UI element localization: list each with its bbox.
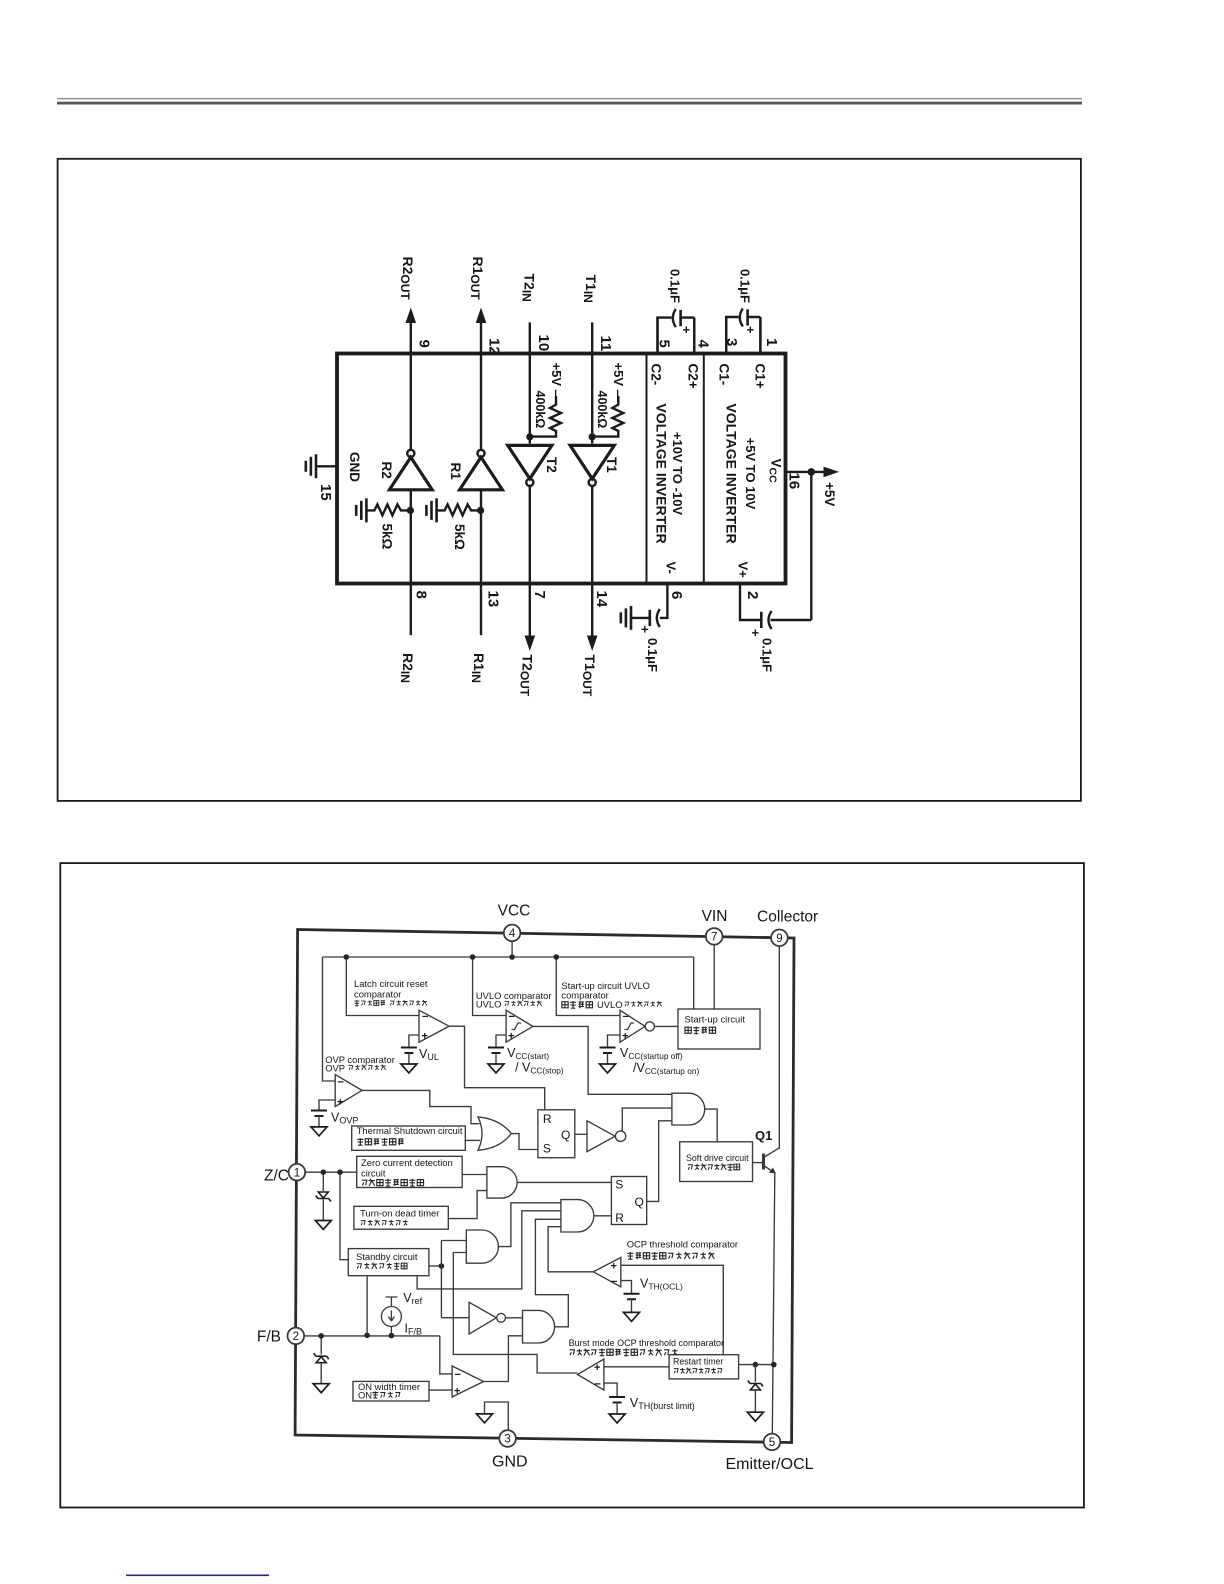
svg-text:VTH(burst limit): VTH(burst limit) — [630, 1396, 695, 1411]
svg-text:T2OUT: T2OUT — [518, 655, 536, 697]
ON width comparator output up to burst AND — [484, 1336, 523, 1382]
svg-text:0.1μF: 0.1μF — [645, 638, 660, 672]
pseudo japanese: UVLO comparator caption — [505, 1001, 542, 1007]
svg-text:+: + — [679, 326, 694, 334]
svg-text:OCP threshold comparator: OCP threshold comparator — [627, 1239, 738, 1250]
GND pin ground symbol — [485, 1402, 509, 1431]
svg-text:S: S — [615, 1178, 623, 1192]
svg-text:VTH(OCL): VTH(OCL) — [640, 1277, 683, 1292]
Z/C to standby circuit — [340, 1172, 348, 1260]
junction dot bus latch comparator — [344, 954, 350, 960]
svg-text:/ VCC(stop): / VCC(stop) — [515, 1061, 564, 1076]
figure 2 outer frame — [60, 863, 1084, 1507]
OR output to latch2 R — [594, 1215, 612, 1217]
svg-text:Q1: Q1 — [755, 1128, 772, 1143]
svg-text:VOLTAGE INVERTER: VOLTAGE INVERTER — [724, 403, 740, 543]
UVLO battery VCCstart — [496, 1035, 506, 1047]
svg-text:VCC(start): VCC(start) — [507, 1046, 549, 1061]
wire V+ cap to +5V rail — [810, 472, 812, 620]
svg-text:Turn-on dead timer: Turn-on dead timer — [360, 1208, 439, 1219]
turn-on dead timer block — [354, 1206, 448, 1229]
pseudo japanese: latch comparator caption — [354, 1000, 427, 1006]
svg-text:5kΩ: 5kΩ — [452, 524, 467, 550]
junction dot R2/5k — [407, 507, 414, 514]
resistor 400k T1 (vertical) — [592, 396, 623, 437]
svg-text:5kΩ: 5kΩ — [380, 524, 395, 550]
inverter2 bubble — [497, 1313, 506, 1322]
svg-text:9: 9 — [416, 340, 433, 348]
burst AND gate — [523, 1310, 555, 1343]
svg-text:+5V —: +5V — — [549, 363, 564, 403]
svg-text:0.1μF: 0.1μF — [668, 269, 683, 303]
latch reset comparator triangle — [419, 1010, 449, 1042]
ground at 5k R1 — [426, 498, 436, 522]
internal divider line right (doubler section) — [703, 355, 705, 582]
svg-text:T1: T1 — [604, 457, 619, 473]
standby AND output to OR-a — [498, 1203, 561, 1247]
standby second bottom lead to OR-b — [417, 1211, 561, 1289]
OVP comparator triangle — [335, 1075, 362, 1107]
svg-text:1: 1 — [294, 1167, 300, 1179]
svg-text:VCC: VCC — [498, 903, 531, 920]
startup comparator output bubble — [645, 1022, 654, 1031]
wire pin 14 T1OUT — [591, 486, 593, 637]
restart timer output to emitter line — [739, 1364, 774, 1366]
pseudo japanese: standby caption — [357, 1263, 407, 1270]
svg-text:1: 1 — [763, 338, 780, 346]
junction dot restart emitter — [771, 1362, 777, 1368]
arrow R1OUT — [476, 309, 485, 323]
AND to latch2 S — [517, 1181, 611, 1183]
transmitter T2 triangle — [508, 445, 552, 478]
svg-text:16: 16 — [786, 473, 803, 490]
Q1 base wire — [753, 1162, 763, 1164]
capacitor C5 plates (V- to GND) — [648, 610, 651, 626]
junction dot T2/400k — [526, 433, 533, 440]
wire pin7 VIN down — [713, 945, 715, 1010]
F/B pin wire — [302, 1335, 440, 1337]
svg-text:VCC(startup off): VCC(startup off) — [620, 1046, 683, 1061]
svg-text:9: 9 — [776, 933, 782, 945]
svg-text:Restart timer: Restart timer — [673, 1357, 723, 1367]
RS latch 2 — [611, 1177, 646, 1225]
OR to latch S — [511, 1134, 538, 1150]
start-up circuit block — [678, 1009, 760, 1049]
pin circle 4 — [504, 925, 521, 942]
svg-text:GND: GND — [347, 452, 362, 482]
OR gate thermal — [478, 1117, 511, 1150]
junction dot Z/C zener — [321, 1169, 327, 1175]
capacitor C1 loop pins 1-3 — [726, 317, 738, 355]
arrow T1OUT — [588, 636, 597, 650]
inverter bubble — [615, 1131, 625, 1141]
pseudo japanese: zero current caption — [362, 1179, 424, 1186]
wire pin 3 stub — [725, 317, 727, 355]
ground symbol pin 15 — [306, 454, 316, 478]
svg-text:Soft drive circuit: Soft drive circuit — [686, 1153, 749, 1163]
svg-text:0.1μF: 0.1μF — [738, 269, 753, 303]
svg-text:OVP: OVP — [325, 1063, 345, 1074]
svg-text:400kΩ: 400kΩ — [533, 391, 547, 429]
UVLO output down to big AND — [533, 1026, 672, 1094]
UVLO comparator triangle — [506, 1010, 533, 1042]
burst mode comparator triangle (points left) — [578, 1359, 604, 1390]
pseudo japanese: startup UVLO caption — [562, 1001, 593, 1008]
svg-text:ON: ON — [358, 1390, 372, 1401]
startup hysteresis glyph — [625, 1023, 635, 1030]
standby circuit block — [348, 1249, 429, 1276]
svg-text:Thermal Shutdown circuit: Thermal Shutdown circuit — [357, 1125, 463, 1136]
svg-text:R2: R2 — [379, 462, 394, 479]
svg-text:Start-up circuit: Start-up circuit — [685, 1014, 746, 1025]
svg-text:12: 12 — [486, 338, 503, 355]
svg-text:VUL: VUL — [419, 1047, 439, 1062]
OCP output to OR-d — [548, 1227, 593, 1272]
wire pin 9 R2OUT — [410, 323, 412, 450]
svg-text:−: − — [623, 1011, 629, 1023]
svg-text:+: + — [454, 1386, 460, 1398]
wire pin 1 stub — [759, 317, 761, 355]
svg-text:2: 2 — [293, 1331, 299, 1343]
latch comparator plus lead and battery VUL — [409, 1035, 419, 1047]
OVP battery VOVP — [319, 1100, 335, 1110]
resistor 5k R1 zigzag — [437, 504, 481, 515]
svg-text:S: S — [543, 1142, 551, 1156]
junction dot T1/400k — [589, 433, 596, 440]
burst plus wire to restart timer — [604, 1366, 669, 1368]
svg-text:V+: V+ — [736, 562, 751, 579]
svg-text:+: + — [748, 629, 763, 637]
zero current AND gate — [487, 1167, 517, 1198]
resistor 5k R2 zigzag — [366, 504, 410, 515]
svg-text:4: 4 — [509, 928, 516, 940]
ground symbol at C5 — [621, 606, 631, 630]
UVLO hysteresis glyph — [512, 1023, 522, 1030]
Q1 emitter arrow — [769, 1168, 775, 1173]
svg-text:14: 14 — [593, 591, 610, 608]
standby AND gate — [466, 1230, 498, 1263]
svg-text:+5V —: +5V — — [611, 363, 626, 403]
thermal shutdown block — [352, 1126, 466, 1150]
zener at emitter — [754, 1365, 756, 1382]
latch2 Q up to big AND — [647, 1121, 672, 1202]
latch1 Q to inverter — [575, 1133, 587, 1135]
blue footer line — [126, 1575, 269, 1577]
ON width timer output to comparator plus — [429, 1389, 452, 1391]
zero current to AND — [462, 1174, 487, 1176]
OVP output to OR gate — [362, 1090, 480, 1123]
junction dot bus UVLO — [470, 954, 476, 960]
wire pin 5 stub — [656, 318, 658, 355]
big AND output to soft drive — [705, 1109, 718, 1142]
svg-text:+: + — [594, 1362, 600, 1374]
ON width comparator triangle — [452, 1366, 484, 1397]
svg-text:GND: GND — [492, 1454, 528, 1471]
zener at F/B — [320, 1336, 322, 1355]
VCC bus wire — [323, 957, 694, 1081]
svg-text:Emitter/OCL: Emitter/OCL — [726, 1456, 814, 1473]
receiver R2 triangle — [389, 457, 432, 490]
wire pin 8 R2IN — [410, 490, 412, 635]
wire pin9 collector down — [778, 946, 781, 1148]
svg-text:−: − — [595, 1379, 601, 1391]
svg-text:+: + — [638, 626, 653, 634]
pseudo japanese: startup box caption — [685, 1027, 716, 1034]
Vref current source — [386, 1297, 398, 1307]
svg-text:+5V: +5V — [822, 482, 837, 506]
internal divider line left (inverter section) — [646, 355, 648, 582]
svg-text:Collector: Collector — [757, 909, 818, 926]
zener at Z/C — [322, 1172, 324, 1191]
svg-text:5: 5 — [656, 340, 673, 348]
inverter triangle — [587, 1121, 615, 1152]
svg-text:C1-: C1- — [717, 364, 732, 386]
wire pin 12 R1OUT — [480, 323, 482, 450]
svg-text:7: 7 — [531, 591, 548, 599]
svg-text:R1OUT: R1OUT — [468, 257, 486, 301]
svg-text:R1: R1 — [448, 463, 463, 481]
capacitor C2 loop pins 5-4 — [658, 318, 672, 355]
pseudo japanese: restart timer caption — [674, 1368, 722, 1374]
svg-text:Vref: Vref — [403, 1291, 422, 1306]
wire pin 13 R1IN — [480, 490, 482, 635]
svg-text:R2IN: R2IN — [398, 653, 416, 683]
OCP minus battery VTHOCL — [621, 1281, 632, 1293]
svg-text:+10V TO -10V: +10V TO -10V — [670, 432, 685, 516]
junction dot Z/C standby — [337, 1169, 343, 1175]
svg-text:V-: V- — [664, 562, 679, 574]
resistor 400k T2 (vertical) — [530, 396, 561, 437]
standby line up to AND and down to inverter2 — [441, 1241, 469, 1318]
F/B bus corner down to ON width comparator minus — [440, 1336, 452, 1374]
svg-text:Zero current detection: Zero current detection — [361, 1157, 453, 1168]
soft drive circuit block — [680, 1142, 753, 1182]
svg-text:VCC: VCC — [767, 459, 784, 484]
transmitter T1 triangle — [570, 445, 614, 478]
svg-text:R1IN: R1IN — [469, 653, 487, 683]
svg-text:Latch circuit reset: Latch circuit reset — [354, 978, 428, 989]
svg-text:+5V TO 10V: +5V TO 10V — [743, 438, 758, 510]
Q1 collector — [764, 1148, 779, 1157]
pseudo japanese: soft drive caption — [688, 1164, 740, 1171]
wire pin 15 GND — [316, 465, 337, 467]
pseudo japanese: OVP comparator caption — [349, 1065, 386, 1071]
svg-text:Z/C: Z/C — [264, 1168, 289, 1185]
svg-text:7: 7 — [711, 932, 717, 944]
figure 1 outer frame — [58, 159, 1081, 801]
svg-text:−: − — [611, 1276, 617, 1288]
OCP threshold comparator triangle (points left) — [593, 1258, 621, 1287]
svg-text:11: 11 — [597, 336, 614, 352]
junction dot R1/5k — [477, 507, 484, 514]
junction dot standby — [439, 1263, 445, 1269]
svg-text:Q: Q — [635, 1195, 644, 1209]
svg-text:R: R — [543, 1112, 552, 1126]
inverter2 triangle — [469, 1302, 496, 1334]
burst comparator output to AND bottom — [453, 1253, 577, 1374]
zero current detection block — [357, 1156, 463, 1187]
arrow +5V — [824, 467, 838, 476]
pin circle 9 — [771, 930, 788, 947]
svg-text:circuit: circuit — [361, 1168, 386, 1179]
pin circle 5 — [764, 1434, 781, 1451]
svg-text:Q: Q — [561, 1128, 570, 1142]
svg-text:T2IN: T2IN — [520, 274, 538, 302]
inverter2 to burst AND — [506, 1317, 523, 1319]
svg-text:C1+: C1+ — [753, 364, 768, 389]
wire pin 10 T2IN — [529, 322, 531, 443]
standby output wire — [429, 1265, 442, 1267]
svg-text:3: 3 — [723, 338, 740, 346]
thermal output to OR — [465, 1139, 480, 1141]
wire pin 2 V+ — [740, 584, 761, 621]
svg-text:+: + — [611, 1261, 617, 1273]
svg-text:400kΩ: 400kΩ — [595, 391, 609, 429]
svg-text:+: + — [422, 1031, 428, 1043]
RS latch 1 — [538, 1110, 575, 1158]
svg-text:−: − — [455, 1369, 461, 1381]
startup UVLO battery VCCstartup — [608, 1035, 621, 1047]
svg-text:VOLTAGE INVERTER: VOLTAGE INVERTER — [654, 403, 670, 543]
capacitor C4 plates (V+ to VCC) — [760, 612, 763, 628]
pin circle 2 — [288, 1328, 305, 1345]
svg-text:0.1μF: 0.1μF — [760, 638, 775, 672]
pseudo japanese: OCP threshold caption — [627, 1252, 714, 1259]
arrow R2OUT — [406, 309, 415, 323]
startup UVLO comparator triangle — [620, 1010, 645, 1042]
ground at 5k R2 — [356, 498, 366, 522]
Q1 base bar — [762, 1154, 765, 1170]
pin circle 7 — [706, 928, 723, 945]
svg-text:+: + — [743, 326, 758, 334]
receiver R1 triangle — [460, 457, 503, 490]
svg-text:Burst mode OCP threshold compa: Burst mode OCP threshold comparator — [569, 1338, 724, 1348]
Q1 emitter — [764, 1166, 775, 1173]
block diagram outer border — [295, 930, 794, 1443]
svg-text:−: − — [509, 1011, 515, 1023]
svg-text:C2+: C2+ — [686, 364, 701, 389]
svg-text:2: 2 — [744, 591, 761, 599]
svg-text:−: − — [422, 1011, 428, 1023]
page header double rule — [57, 98, 1082, 99]
Z/C pin wire — [305, 1171, 357, 1173]
pin circle 1 — [289, 1164, 306, 1181]
restart timer block — [669, 1355, 739, 1379]
svg-text:R: R — [615, 1211, 624, 1225]
svg-text:4: 4 — [695, 340, 712, 349]
svg-text:VIN: VIN — [702, 908, 728, 925]
burst AND output loop to OR-c — [535, 1219, 568, 1327]
4-input OR gate to R — [561, 1200, 594, 1232]
wire pin 11 T1IN — [591, 322, 593, 443]
svg-text:−: − — [338, 1077, 344, 1089]
wire pin 7 T2OUT — [529, 486, 531, 637]
svg-text:comparator: comparator — [354, 989, 401, 1000]
pseudo japanese: dead timer caption — [361, 1220, 408, 1226]
svg-text:UVLO: UVLO — [597, 999, 623, 1010]
wire pin4 to bus — [511, 941, 513, 957]
svg-text:6: 6 — [668, 591, 685, 599]
svg-text:IF/B: IF/B — [405, 1322, 423, 1337]
junction dot restart zener — [753, 1362, 759, 1368]
emitter line down to pin5 — [772, 1173, 775, 1434]
inverter output up to big AND — [622, 1108, 672, 1131]
svg-text:+: + — [508, 1031, 514, 1043]
svg-text:F/B: F/B — [257, 1329, 281, 1346]
svg-text:R2OUT: R2OUT — [398, 257, 416, 301]
svg-text:13: 13 — [485, 591, 502, 608]
svg-text:10: 10 — [535, 335, 552, 352]
junction dot bus startup UVLO — [554, 954, 560, 960]
IC package box — [337, 354, 786, 584]
svg-text:3: 3 — [504, 1434, 510, 1446]
pseudo japanese: thermal shutdown caption — [357, 1138, 403, 1145]
svg-text:/VCC(startup on): /VCC(startup on) — [633, 1061, 699, 1076]
svg-text:+: + — [622, 1031, 628, 1043]
wire pin 4 stub — [693, 318, 695, 355]
dead timer to AND — [448, 1191, 487, 1219]
arrow T2OUT — [525, 636, 534, 650]
svg-text:VOVP: VOVP — [331, 1111, 358, 1126]
svg-text:C2-: C2- — [649, 364, 664, 386]
junction dot Vref — [389, 1333, 395, 1339]
svg-text:Standby circuit: Standby circuit — [356, 1251, 418, 1262]
junction dot F/B zener — [318, 1333, 324, 1339]
ON width timer block — [353, 1381, 429, 1401]
burst minus battery VTHburst — [604, 1383, 617, 1396]
junction dot +5V rail — [808, 468, 816, 476]
pin circle 3 — [499, 1430, 516, 1447]
standby bottom lead to FB bus — [366, 1276, 368, 1335]
svg-text:T1IN: T1IN — [581, 275, 599, 303]
svg-text:5: 5 — [769, 1437, 775, 1449]
svg-text:15: 15 — [317, 484, 334, 501]
big AND gate — [672, 1093, 705, 1125]
pseudo japanese: burst mode caption — [570, 1349, 678, 1356]
wire pin 16 VCC to +5V — [786, 471, 827, 473]
svg-text:T2: T2 — [544, 457, 559, 473]
svg-text:+: + — [337, 1097, 343, 1109]
junction dot F/B standby lead — [364, 1333, 370, 1339]
svg-text:8: 8 — [413, 591, 430, 599]
svg-text:UVLO: UVLO — [476, 999, 502, 1010]
latch comparator output to latch R — [449, 1026, 545, 1110]
junction dot bus pin4 — [509, 954, 515, 960]
wire pin 6 V- — [660, 584, 668, 618]
OCP plus wire to restart timer top — [621, 1265, 724, 1354]
svg-text:T1OUT: T1OUT — [580, 655, 598, 697]
